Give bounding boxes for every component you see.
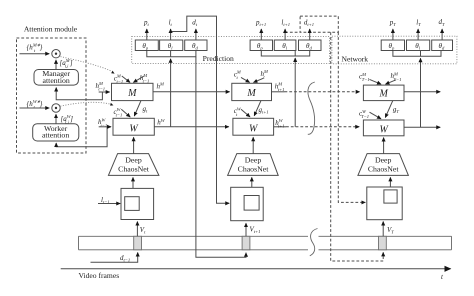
box theta_d t: [185, 40, 207, 51]
arrow glimpse to chaosnet t+1: [251, 177, 253, 195]
multiply node (manager): [52, 50, 60, 58]
svg-text:Prediction: Prediction: [203, 54, 234, 63]
arrow g_t M to W: [134, 101, 141, 116]
wire d_t down to next frame segment: [196, 57, 246, 257]
arrow chaosnet to W T: [383, 138, 385, 154]
feedback wire into manager attention: [56, 88, 102, 100]
box W T: [363, 120, 404, 136]
box theta_p t+1: [250, 40, 272, 51]
arrow h into M t: [133, 76, 143, 82]
arrow c into M t+1: [241, 77, 250, 82]
box theta_p t: [135, 40, 158, 51]
dashed wire d_t+1 to next frame segment: [331, 32, 384, 261]
output arrow d_T: [441, 29, 443, 40]
video frames strip right part: [319, 236, 452, 250]
output arrow l_t+1: [284, 29, 286, 40]
manager attention box: [34, 70, 78, 86]
prediction dotted box: [132, 37, 330, 64]
svg-text:ChaosNet: ChaosNet: [238, 165, 270, 174]
arrow glimpse to chaosnet T: [389, 177, 391, 190]
wire l_t to next frame crop: [171, 16, 230, 203]
wire into multiply node M: [20, 53, 50, 55]
svg-text:Attention module: Attention module: [24, 25, 78, 34]
output arrow l_T: [417, 29, 419, 40]
frame segment V_t: [134, 236, 142, 250]
wire h^M t to next M: [153, 91, 230, 93]
box W t: [113, 118, 154, 135]
arrow chaosnet to W t: [133, 137, 135, 153]
theta bus t: [147, 51, 196, 57]
output arrow p_t: [146, 29, 148, 40]
crop box t: [121, 188, 154, 219]
output arrow W T: [404, 126, 440, 128]
wire h to theta boxes T: [420, 58, 422, 127]
svg-text:M: M: [379, 89, 389, 100]
box M T: [363, 85, 404, 101]
timestep break squiggle: [308, 82, 315, 134]
box W t+1: [233, 118, 274, 135]
input stub into M t: [99, 91, 110, 93]
output arrow M T: [404, 91, 440, 93]
arrow worker attention to multiply node: [55, 114, 57, 124]
output arrow d_t: [195, 29, 197, 40]
output arrow p_T: [392, 29, 394, 40]
arrow c into M t: [122, 76, 130, 82]
arrow manager attention to multiply node: [55, 60, 57, 70]
arrow h into M T: [386, 80, 397, 84]
arrow glimpse to chaosnet t: [132, 177, 134, 196]
svg-text:attention: attention: [42, 131, 69, 140]
glimpse box t: [125, 197, 140, 211]
feedback wire into worker attention: [56, 127, 107, 147]
arrow c into W t+1: [241, 109, 250, 117]
input wire d_t-1: [91, 253, 138, 263]
arrow h into M t+1: [254, 78, 264, 82]
wire h^W t+1 dashed to next W: [274, 126, 286, 128]
glimpse box T: [384, 190, 397, 203]
box theta_l T: [407, 40, 430, 51]
arrow V_t from strip to crop: [136, 222, 138, 237]
frame segment V_t+1: [242, 236, 250, 250]
svg-text:Network: Network: [342, 55, 369, 64]
svg-text:attention: attention: [43, 76, 70, 85]
arrow g_t+1 M to W: [254, 101, 261, 116]
wire h^W t to next W: [154, 126, 229, 128]
svg-text:Video frames: Video frames: [79, 271, 120, 280]
network dotted box: [332, 36, 457, 64]
box M t+1: [232, 83, 272, 100]
dotted context arrow manager to c input: [61, 57, 112, 71]
arrow V_t+1 from strip to crop: [245, 223, 247, 236]
multiply node (worker): [52, 104, 60, 112]
theta bus T: [393, 51, 441, 57]
svg-text:M: M: [127, 88, 137, 99]
box theta_l t+1: [274, 40, 296, 51]
svg-text:M: M: [246, 88, 256, 99]
worker attention box: [33, 124, 79, 141]
deep chaosnet t: [108, 154, 158, 176]
arrow chaosnet to W t+1: [252, 137, 254, 153]
box M t: [112, 83, 154, 100]
wire h to theta boxes t+1: [294, 58, 296, 127]
dashed box d_t+1: [300, 16, 338, 32]
svg-text:ChaosNet: ChaosNet: [368, 165, 400, 174]
arrow c into W t: [121, 109, 130, 117]
attention module dashed box: [17, 38, 87, 153]
box theta_d t+1: [299, 40, 322, 51]
glimpse box t+1: [244, 196, 259, 211]
crop box T: [367, 187, 402, 220]
deep chaosnet t+1: [228, 154, 279, 176]
svg-text:Deep: Deep: [125, 155, 142, 164]
svg-text:ChaosNet: ChaosNet: [118, 165, 150, 174]
wire h^M t+1 dashed to next M: [272, 91, 285, 93]
strip break squiggle: [310, 229, 318, 256]
crop box t+1: [231, 187, 264, 220]
theta bus t+1: [261, 51, 309, 57]
box theta_d T: [432, 40, 453, 51]
wire into multiply node W: [20, 107, 50, 109]
frame segment V_T: [379, 236, 387, 250]
arrow c into M T: [370, 79, 382, 84]
wire h to theta boxes t: [170, 59, 172, 127]
arrow c into W T: [370, 112, 382, 119]
svg-text:Deep: Deep: [375, 155, 392, 164]
arrow g_T M to W: [385, 101, 393, 118]
output arrow d_t+1: [309, 29, 311, 40]
timeline arrow: [61, 268, 451, 270]
input stub into W t: [99, 126, 111, 128]
box theta_p T: [381, 40, 404, 51]
dotted context arrow worker to c input: [60, 102, 110, 106]
input stub l_t-1: [98, 203, 120, 205]
video frames strip left part: [79, 236, 309, 250]
output arrow l_t: [170, 29, 172, 40]
box theta_l t: [160, 40, 183, 51]
arrow V_T from strip to crop: [382, 222, 384, 237]
deep chaosnet T: [358, 154, 409, 176]
svg-text:Deep: Deep: [245, 155, 262, 164]
dashed wire l_t+1 to next crop: [285, 31, 300, 33]
output arrow p_t+1: [260, 29, 262, 40]
